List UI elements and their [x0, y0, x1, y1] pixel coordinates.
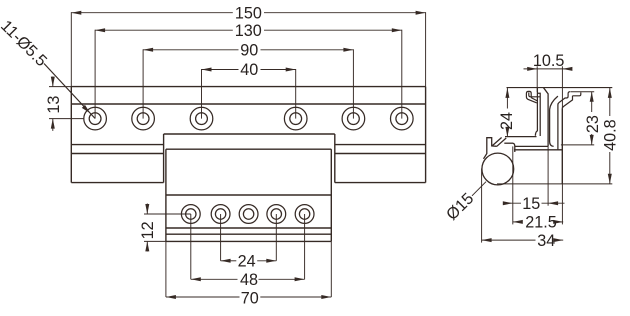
- plate hole 2 counterbore: [211, 205, 230, 224]
- extension line plate hole1 down: [190, 214, 192, 279]
- extension line hole4 up: [295, 69, 297, 119]
- label dia15: [443, 189, 477, 223]
- extension line profile bottom: [497, 183, 612, 185]
- carriage left edge: [163, 134, 165, 183]
- profile bottom plate bottom: [514, 149, 562, 151]
- svg-text:24: 24: [498, 112, 516, 130]
- rail hole 2 bore: [137, 113, 149, 125]
- extension line 34 left: [481, 169, 483, 243]
- extension line hole2 up: [142, 49, 144, 118]
- profile retaining arm: [484, 138, 507, 159]
- rail hole 3 bore: [196, 113, 208, 125]
- plate hole 3 bore: [243, 209, 253, 219]
- svg-text:21.5: 21.5: [525, 214, 557, 232]
- extension line plate hole1 left: [144, 213, 191, 215]
- dimension 10.5: [524, 52, 573, 71]
- svg-text:10.5: 10.5: [533, 52, 565, 70]
- rail hole 6 bore: [396, 113, 408, 125]
- svg-text:24: 24: [238, 252, 256, 270]
- rail hole 5 bore: [348, 113, 360, 125]
- dimension 24 profile: [498, 88, 516, 137]
- extension line 21.5 right: [561, 184, 563, 225]
- carriage right edge: [334, 134, 336, 183]
- svg-text:150: 150: [235, 4, 262, 22]
- dimension 21.5: [513, 214, 563, 232]
- profile top edge line: [507, 87, 613, 89]
- dimension 24: [221, 252, 277, 270]
- svg-text:70: 70: [241, 290, 259, 308]
- plate hole 3 counterbore: [239, 205, 258, 224]
- extension line tongue left up: [536, 66, 538, 92]
- svg-text:90: 90: [240, 41, 258, 59]
- rail hole 4 bore: [290, 113, 302, 125]
- extension line hole5 up: [352, 49, 354, 118]
- rail left edge: [70, 87, 72, 183]
- rail right edge: [425, 87, 427, 183]
- extension line plate hole5 down: [304, 214, 306, 279]
- carriage top edge: [164, 133, 335, 135]
- plate hole 4 bore: [271, 209, 281, 219]
- label 11-dia5.5: [0, 17, 50, 70]
- svg-text:12: 12: [139, 221, 157, 239]
- dimension 40: [202, 61, 296, 79]
- plate groove line 1: [166, 227, 331, 229]
- plate top edge: [166, 148, 331, 150]
- extension line hole3 up: [201, 69, 203, 119]
- rail bottom edge left: [71, 182, 163, 184]
- svg-text:40.8: 40.8: [601, 119, 619, 151]
- rail hole 1 bore: [89, 113, 101, 125]
- dimension 34: [482, 232, 564, 250]
- profile right flange top edge: [570, 91, 594, 93]
- rail hole 4 counterbore: [284, 107, 307, 130]
- extension line hole1 up: [94, 30, 96, 119]
- rail bottom edge right: [335, 182, 426, 184]
- rail lower step line right: [335, 144, 426, 146]
- plate hole 5 bore: [299, 209, 309, 219]
- leader line 11-dia5.5: [44, 64, 95, 119]
- plate bottom edge: [166, 240, 331, 242]
- rail lower step line left: [71, 144, 163, 146]
- profile right hook: [559, 92, 581, 109]
- plate left edge: [165, 149, 167, 241]
- rail hole 6 counterbore: [391, 107, 414, 130]
- dimension 70: [166, 290, 331, 308]
- dimension 13: [45, 77, 63, 131]
- profile center divider strip: [535, 88, 540, 136]
- profile ledge line: [505, 136, 537, 138]
- svg-text:23: 23: [584, 115, 602, 133]
- extension line hole1 center left: [49, 118, 84, 120]
- plate groove line 2: [166, 233, 331, 235]
- plate step line: [166, 194, 331, 196]
- extension line rail top left: [49, 86, 71, 88]
- extension line outer wall up: [561, 66, 563, 109]
- svg-text:13: 13: [45, 96, 63, 114]
- dimension 23: [584, 92, 602, 145]
- extension line hole6 up: [401, 30, 403, 119]
- dimension 12: [139, 204, 157, 252]
- plate hole 4 counterbore: [267, 205, 286, 224]
- plate hole 2 bore: [215, 209, 225, 219]
- profile outer wall: [561, 109, 563, 184]
- extension line plate right down: [330, 241, 332, 297]
- dimension 40.8: [601, 88, 619, 184]
- extension line plate left down: [165, 241, 167, 297]
- rail hole 5 counterbore: [342, 107, 365, 130]
- rail upper step line: [71, 103, 425, 105]
- extension line 15 right: [547, 146, 549, 205]
- profile body left wall: [513, 143, 515, 152]
- leader line dia15: [472, 182, 486, 196]
- plate hole 1 counterbore: [181, 205, 200, 224]
- svg-text:40: 40: [240, 61, 258, 79]
- dimension 90: [143, 41, 353, 59]
- plate hole 1 bore: [186, 209, 196, 219]
- roller circle dia15: [482, 153, 514, 185]
- dimension 48: [191, 271, 305, 289]
- plate right edge: [330, 149, 332, 241]
- profile tongue: [544, 88, 558, 147]
- profile right stem: [558, 103, 559, 150]
- svg-text:15: 15: [522, 195, 540, 213]
- profile body ledge: [504, 142, 513, 144]
- plate hole 5 counterbore: [295, 205, 314, 224]
- svg-text:34: 34: [537, 232, 555, 250]
- rail hole 2 counterbore: [132, 107, 155, 130]
- rail hole 1 counterbore: [84, 107, 107, 130]
- profile left hook: [526, 91, 540, 103]
- svg-text:130: 130: [235, 22, 262, 40]
- svg-text:48: 48: [240, 271, 258, 289]
- extension line rail right top: [425, 12, 427, 86]
- extension line plate hole4 down: [275, 214, 277, 261]
- dimension 130: [95, 22, 402, 40]
- rail top edge: [71, 86, 425, 88]
- extension line 23 bottom: [561, 144, 594, 146]
- profile bottom plate top: [515, 145, 548, 147]
- rail lower step line 2 right: [335, 153, 426, 155]
- extension line plate bottom left: [144, 240, 166, 242]
- extension line 15 left: [512, 146, 514, 224]
- dimension 15: [503, 195, 565, 213]
- rail hole 3 counterbore: [190, 107, 213, 130]
- dimension 150: [71, 4, 425, 22]
- rail lower step line 2 left: [71, 153, 163, 155]
- extension line rail left top: [70, 12, 72, 86]
- extension line plate hole2 down: [220, 214, 222, 261]
